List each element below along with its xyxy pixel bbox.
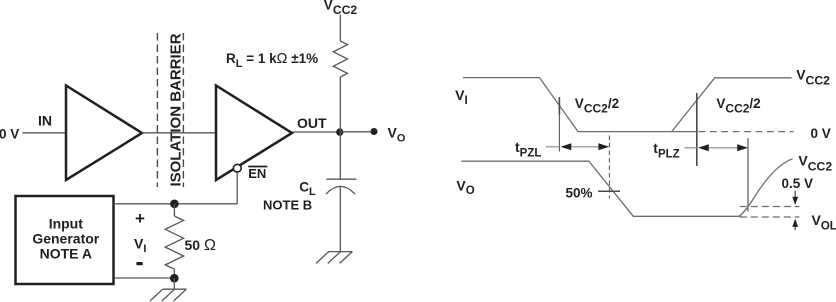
buffer U2 [216, 86, 292, 181]
wire CL to ground [339, 187, 341, 252]
wire generator minus output [114, 277, 175, 279]
node VCC2/2 crossing tick falling edge [558, 97, 560, 115]
buffer U1 [66, 86, 142, 181]
capacitor CL curved bottom plate [326, 186, 355, 194]
svg-text:VI: VI [134, 235, 146, 255]
junction VI plus node [170, 200, 179, 209]
svg-text:Input: Input [49, 216, 84, 232]
isolation barrier dashed line left [156, 33, 158, 187]
wire RL to OUT junction [339, 77, 341, 132]
wire OUT to junction [292, 131, 340, 133]
node VOL+0.5V dashed line [740, 206, 800, 208]
ground under 50 ohm [150, 289, 187, 301]
arrow 0.5V down [794, 191, 796, 199]
node VCC2/2 crossing tick rising edge [696, 93, 698, 166]
svg-text:VO: VO [456, 177, 474, 197]
wire tPLZ leader [685, 147, 697, 149]
wire up to enable bubble [236, 172, 238, 204]
wire U1 output [142, 132, 216, 134]
svg-text:50%: 50% [566, 185, 593, 200]
svg-text:VCC2/2: VCC2/2 [716, 96, 760, 116]
wire tPZL dashed boundary [608, 136, 610, 199]
wire VO exponential rise [739, 159, 793, 217]
isolation barrier dashed line right [182, 33, 184, 187]
wire tPZL leader [546, 146, 560, 148]
wire generator plus output [114, 203, 238, 205]
svg-text:Generator: Generator [32, 231, 99, 247]
terminal VO dot [371, 128, 378, 135]
junction OUT node [336, 128, 343, 135]
svg-text:tPZL: tPZL [515, 139, 541, 160]
wire junction to ground [173, 278, 175, 289]
svg-text:VCC2/2: VCC2/2 [575, 96, 619, 116]
svg-text:RL = 1 kΩ ±1%: RL = 1 kΩ ±1% [226, 51, 318, 70]
wire tPLZ arrow shaft [709, 147, 738, 149]
arrow tPLZ left [698, 144, 709, 151]
svg-text:50 Ω: 50 Ω [185, 237, 216, 254]
svg-text:VOL: VOL [812, 212, 836, 233]
ground under CL [316, 252, 353, 264]
wire VCC2 to RL [339, 15, 341, 42]
svg-text:tPLZ: tPLZ [653, 140, 679, 161]
svg-text:VI: VI [455, 87, 468, 107]
node minus label [136, 262, 142, 265]
svg-text:IN: IN [38, 113, 52, 129]
node 50% crossing tick [598, 190, 620, 192]
arrow tPZL right [598, 143, 609, 150]
svg-text:ISOLATION BARRIER: ISOLATION BARRIER [168, 33, 185, 186]
svg-text:EN: EN [248, 166, 266, 181]
arrow VOL up [794, 225, 796, 230]
arrow tPZL left [561, 143, 572, 150]
svg-text:0 V: 0 V [0, 126, 19, 141]
node 0V dashed level line [699, 131, 794, 133]
wire tPLZ boundary right [747, 138, 749, 212]
wire boundary line falling edge [558, 115, 560, 152]
svg-text:NOTE A: NOTE A [40, 246, 92, 262]
svg-text:OUT: OUT [297, 115, 327, 131]
resistor RL [333, 41, 347, 77]
input generator box [16, 196, 114, 284]
svg-text:VCC2: VCC2 [324, 0, 358, 17]
node VOL dashed line [740, 216, 800, 218]
svg-text:0.5 V: 0.5 V [782, 176, 814, 191]
svg-text:CL: CL [299, 179, 316, 198]
svg-text:+: + [135, 209, 145, 228]
enable bubble on U2 [233, 164, 241, 172]
wire junction to 50 ohm resistor [173, 204, 175, 216]
wire IN input [23, 132, 67, 134]
resistor 50 ohm [165, 216, 183, 269]
wire junction to VO terminal [340, 131, 374, 133]
svg-text:VO: VO [388, 125, 406, 145]
svg-text:0 V: 0 V [811, 126, 831, 141]
junction VI minus node [170, 274, 179, 283]
capacitor CL top plate [326, 178, 356, 180]
svg-text:VCC2: VCC2 [798, 153, 832, 174]
wire tPZL arrow shaft [571, 146, 599, 148]
arrow tPLZ right [737, 144, 748, 151]
wire VI waveform trace [463, 78, 792, 132]
svg-text:NOTE B: NOTE B [263, 198, 312, 213]
wire OUT junction down to CL [339, 132, 341, 179]
wire 50 ohm to bottom junction [173, 269, 175, 278]
wire VO waveform trace [461, 161, 741, 216]
svg-text:VCC2: VCC2 [796, 67, 830, 88]
